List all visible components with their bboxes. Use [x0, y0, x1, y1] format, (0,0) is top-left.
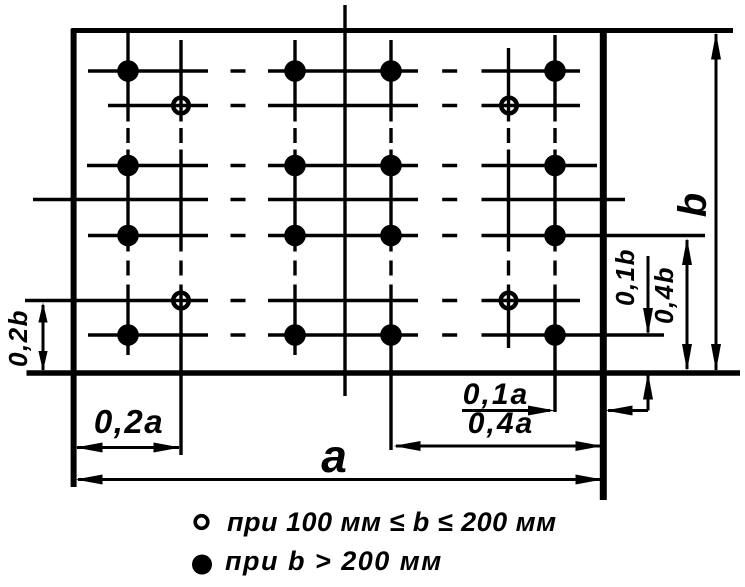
- hole column 1 centerline: [126, 33, 129, 355]
- dimension "0,4b" line with arrows: [686, 240, 689, 369]
- plate outline top edge + b-dimension extension: [72, 28, 733, 33]
- hole row 4 centerline + 0,4b extension: [88, 234, 705, 237]
- legend open-hole symbol: [195, 516, 208, 529]
- svg-text:0,2a: 0,2a: [94, 403, 164, 440]
- hole row 3 centerline: [87, 164, 597, 167]
- svg-text:0,1b: 0,1b: [610, 248, 640, 306]
- dimension "0,2b" double arrow: [42, 305, 45, 370]
- dimension "0,1b" upper arrow: [647, 256, 650, 333]
- hole column 3 centerline: [293, 40, 296, 355]
- horizontal symmetry axis (dash-dot): [33, 198, 625, 201]
- svg-text:0,4b: 0,4b: [649, 266, 679, 324]
- svg-text:0,4a: 0,4a: [468, 407, 534, 440]
- vertical symmetry axis: [343, 5, 346, 396]
- legend filled-hole symbol: [192, 555, 212, 575]
- hole row 5 centerline (open holes) + 0,2b extension: [25, 299, 580, 302]
- svg-text:a: a: [321, 430, 347, 482]
- svg-text:b: b: [671, 193, 715, 217]
- dimension "0,4a" double arrow: [396, 445, 600, 448]
- dimension "0,2a" double arrow: [77, 446, 179, 449]
- hole column 6 centerline + 0,1a extension: [553, 35, 556, 412]
- plate outline bottom edge with left and right extensions: [27, 370, 741, 376]
- svg-text:при 100 мм ≤ b ≤ 200 мм: при 100 мм ≤ b ≤ 200 мм: [227, 507, 557, 537]
- hole row 2 centerline (open holes): [108, 104, 580, 107]
- hole column 5 centerline (open holes): [507, 48, 510, 348]
- plate outline right edge, extended down past "a" dimension: [600, 29, 607, 501]
- hole row 1 centerline: [88, 69, 580, 72]
- hole row 6 centerline + 0,1b extension: [88, 333, 664, 336]
- hole column 2 centerline (open holes) + 0,2a extension: [179, 40, 182, 455]
- hole column 4 centerline + 0,4a extension: [389, 40, 392, 450]
- dimension "b" line with arrows: [715, 34, 718, 370]
- dimension "a" double arrow: [78, 478, 600, 481]
- svg-text:при b > 200 мм: при b > 200 мм: [225, 546, 443, 576]
- open holes (100 mm <= b <= 200 mm): [173, 98, 189, 114]
- plate outline left edge, extended down to "a" dimension: [71, 29, 77, 488]
- dimension "0,1b" lower arrow joined to "0,1a" right arrow: [647, 375, 650, 411]
- svg-text:0,2b: 0,2b: [3, 309, 33, 367]
- dimension "0,1a" leader with right arrow: [462, 409, 550, 412]
- filled holes (b > 200 mm) 4x4 grid: [117, 60, 139, 82]
